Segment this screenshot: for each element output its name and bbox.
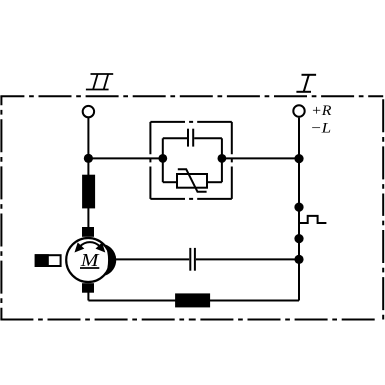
svg-text:M: M xyxy=(80,250,100,270)
svg-text:+R: +R xyxy=(311,103,332,119)
svg-text:−L: −L xyxy=(310,120,331,136)
